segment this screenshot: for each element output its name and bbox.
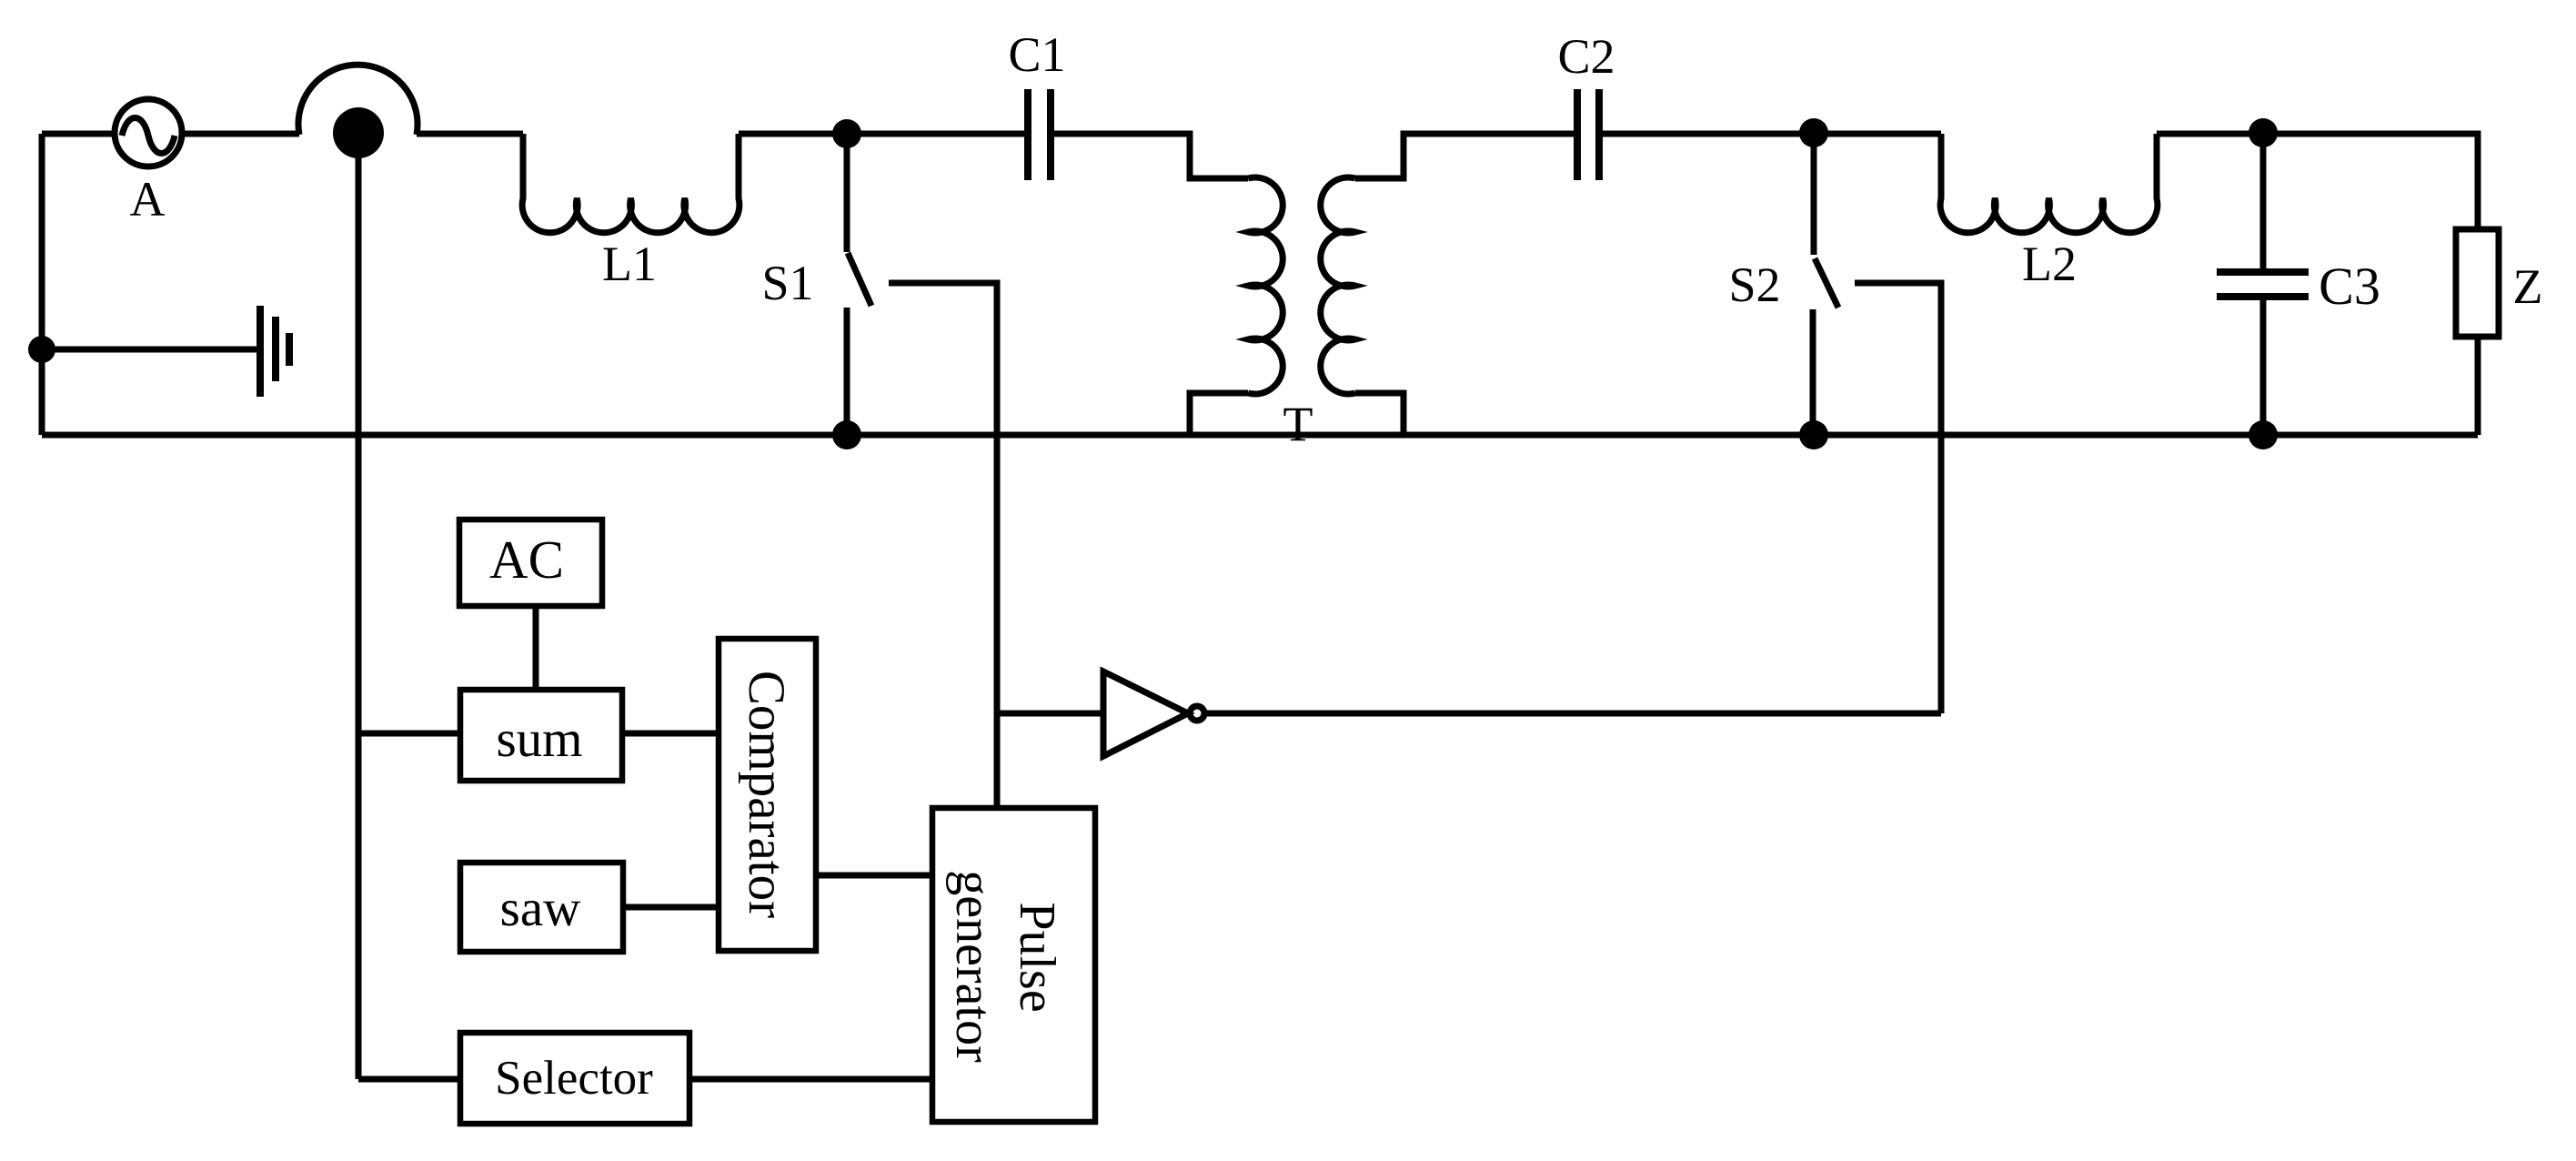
- label Pulse generator block: [945, 870, 1065, 1063]
- svg-text:S2: S2: [1728, 257, 1780, 312]
- svg-text:Comparator: Comparator: [738, 671, 795, 918]
- wire C1 to transformer primary: [1053, 134, 1248, 178]
- svg-text:L1: L1: [602, 237, 657, 291]
- svg-text:C1: C1: [1008, 27, 1065, 82]
- node S1 bottom: [832, 420, 861, 449]
- wire AC to sum: [533, 606, 539, 690]
- capacitor C3: [2260, 133, 2267, 272]
- svg-text:sum: sum: [496, 711, 582, 768]
- block saw: [460, 863, 623, 952]
- wire S2 node to L2: [1814, 131, 1941, 137]
- wire bottom rail: [42, 432, 2478, 439]
- wire left vertical: [39, 134, 45, 435]
- node sensor dot: [333, 107, 384, 158]
- switch S1: [844, 134, 850, 252]
- node S2 bottom: [1799, 420, 1828, 449]
- svg-text:C3: C3: [2319, 257, 2380, 316]
- wire primary bottom return: [1190, 393, 1248, 435]
- svg-text:generator: generator: [945, 870, 1001, 1063]
- svg-text:L2: L2: [2022, 237, 2077, 291]
- svg-text:A: A: [130, 172, 166, 227]
- block sum: [460, 690, 622, 781]
- inductor L1: [522, 134, 740, 233]
- svg-text:saw: saw: [500, 880, 581, 937]
- inverter U1: [997, 711, 1103, 717]
- svg-text:Pulse: Pulse: [1009, 902, 1065, 1012]
- load Z: [2456, 229, 2499, 337]
- block Selector: [460, 1033, 689, 1124]
- wire inverter output to S2 contact: [1204, 711, 1941, 717]
- transformer T primary winding: [1248, 177, 1283, 394]
- wire sum to comparator: [622, 731, 719, 737]
- wire sensor control drop: [356, 133, 362, 1079]
- wire C2 to S2 node: [1603, 131, 1814, 137]
- wire L1 to S1 node: [739, 131, 847, 137]
- node ground junction: [28, 336, 55, 363]
- wire sum tap: [358, 731, 460, 737]
- wire selector tap: [358, 1076, 460, 1083]
- wire S1 node to C1: [847, 131, 1025, 137]
- svg-text:C2: C2: [1557, 29, 1615, 84]
- svg-text:Selector: Selector: [495, 1052, 653, 1105]
- transformer T secondary winding: [1321, 177, 1355, 394]
- wire top left from source to L1: [42, 131, 523, 137]
- wire saw to comparator: [623, 904, 719, 911]
- block AC: [459, 520, 602, 606]
- wire comparator to pulse generator: [816, 873, 932, 879]
- wire selector to pulse generator: [689, 1076, 932, 1083]
- node C3 top: [2249, 118, 2278, 147]
- node C3 bottom: [2249, 420, 2278, 449]
- wire L2 to C3 node to corner: [2157, 134, 2478, 229]
- svg-text:AC: AC: [489, 530, 564, 590]
- block Pulse generator: [932, 808, 1095, 1122]
- wire S2 throw contact: [1855, 283, 1941, 713]
- wire secondary bottom: [1355, 393, 1404, 435]
- current sensor loop: [298, 65, 418, 135]
- capacitor C1: [1024, 89, 1031, 180]
- inductor L2: [1940, 134, 2158, 233]
- svg-text:T: T: [1283, 397, 1313, 451]
- capacitor C2: [1574, 89, 1581, 180]
- wire secondary top: [1355, 134, 1574, 178]
- switch S2: [1811, 134, 1817, 255]
- ground: [42, 347, 259, 353]
- svg-text:Z: Z: [2513, 259, 2543, 314]
- svg-text:S1: S1: [761, 256, 813, 310]
- wire S1 throw contact: [889, 283, 997, 808]
- node S1 top: [832, 119, 861, 148]
- block Comparator: [719, 639, 816, 951]
- node S2 top: [1799, 118, 1828, 147]
- AC source A: [115, 99, 182, 167]
